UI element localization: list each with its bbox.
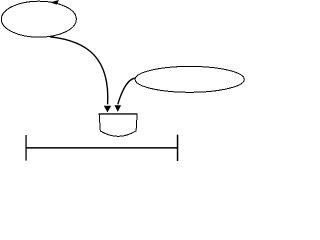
left tick <box>25 135 26 161</box>
right curved arrow wire <box>118 78 135 104</box>
funnel body (sides and curved bottom) <box>99 114 137 136</box>
left curved arrow wire <box>50 37 108 105</box>
right ellipse (sample) <box>135 66 244 92</box>
right tick <box>177 135 179 161</box>
left ellipse (sample loop) <box>1 1 76 37</box>
loop arrowhead on left ellipse top <box>50 0 59 5</box>
funnel top edge <box>99 113 138 114</box>
left arrowhead into funnel <box>104 106 111 113</box>
right arrowhead into funnel <box>115 105 122 112</box>
interval baseline <box>26 147 178 149</box>
